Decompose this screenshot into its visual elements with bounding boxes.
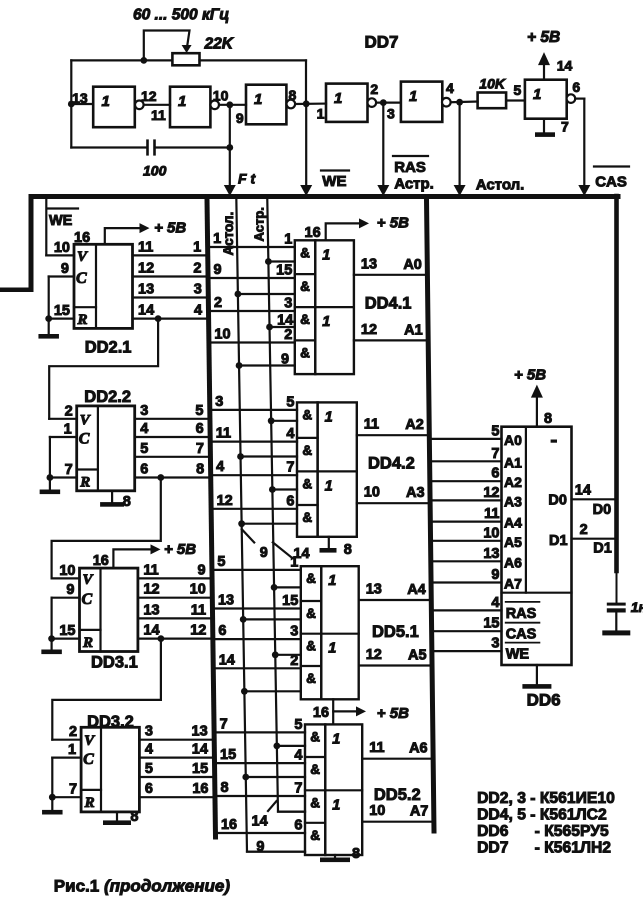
svg-text:2: 2 xyxy=(290,653,298,669)
DD4.1 pin 16 supply wire xyxy=(326,223,361,240)
svg-text:4: 4 xyxy=(446,80,454,96)
svg-text:A5: A5 xyxy=(408,648,427,664)
capacitor 1n wire to ground xyxy=(615,613,617,631)
DD5.1 select input wire from Astr line xyxy=(275,654,301,656)
svg-text:8: 8 xyxy=(344,542,352,558)
DD4.2 net 11 input wire pin 4 xyxy=(213,441,297,443)
DD5.2 select input wire from Astol line xyxy=(247,851,305,853)
svg-text:3: 3 xyxy=(387,106,395,122)
svg-text:15: 15 xyxy=(282,593,298,609)
inverter DD7 element 5 box xyxy=(401,82,442,122)
counter DD3.2 ground bar xyxy=(42,810,63,815)
junction on select line xyxy=(273,743,280,750)
svg-text:4: 4 xyxy=(145,742,153,758)
counter DD2.2 box xyxy=(77,406,135,491)
DD6 address input A7 pin 9 wire xyxy=(433,581,501,583)
junction on select line xyxy=(269,486,276,493)
svg-text:2: 2 xyxy=(370,81,378,97)
carry wire DD2.1 net4 to DD2.2 V xyxy=(155,315,162,322)
svg-text:8: 8 xyxy=(220,780,228,796)
svg-text:Астр.: Астр. xyxy=(394,176,434,193)
svg-text:10: 10 xyxy=(364,485,380,501)
svg-text:1: 1 xyxy=(328,641,336,657)
counter DD3.1 output pin 14 wire to net 12 xyxy=(138,637,211,639)
DD4.2 output pin 10 wire to A3 xyxy=(357,502,428,504)
svg-text:&: & xyxy=(306,639,316,654)
junction on select line xyxy=(272,651,279,658)
label WE at DD2.1 with overline xyxy=(48,207,79,209)
svg-text:D1: D1 xyxy=(593,541,612,557)
svg-text:16: 16 xyxy=(221,817,237,833)
DD5 pin 16 supply wire between halves xyxy=(332,699,334,724)
svg-text:12: 12 xyxy=(217,493,233,509)
counter DD3.2 pin 8 ground bar xyxy=(103,820,131,825)
svg-text:V: V xyxy=(83,572,95,588)
DD5.2 select input wire from Astol line xyxy=(246,776,305,778)
svg-text:3: 3 xyxy=(194,282,202,298)
wire inverter3 out to node xyxy=(295,102,326,105)
inverter DD7 element 1 box xyxy=(93,87,135,128)
svg-text:A7: A7 xyxy=(410,804,429,820)
svg-text:RAS: RAS xyxy=(506,606,537,622)
gate group DD5.2 and-cell column xyxy=(305,724,325,855)
svg-text:&: & xyxy=(306,606,316,621)
select line Astol (vertical) xyxy=(236,199,305,852)
DD4.1 select input wire from Astr line xyxy=(268,260,294,262)
DD5.1 select input wire from Astol line xyxy=(244,690,300,692)
svg-text:3: 3 xyxy=(290,624,298,640)
svg-text:1: 1 xyxy=(332,731,340,747)
svg-text:8: 8 xyxy=(123,494,131,510)
svg-text:12: 12 xyxy=(143,582,159,598)
svg-text:3: 3 xyxy=(140,403,148,419)
svg-text:14: 14 xyxy=(277,313,293,329)
select line Astr (vertical) xyxy=(267,199,305,812)
svg-text:11: 11 xyxy=(369,740,384,756)
DD6 address input A5 pin 10 wire xyxy=(433,540,502,542)
counter DD2.2 ground stub xyxy=(49,478,51,490)
svg-text:2: 2 xyxy=(214,295,222,311)
svg-text:1: 1 xyxy=(325,478,333,494)
svg-text:9: 9 xyxy=(281,352,289,368)
counter DD3.2 box xyxy=(81,727,139,812)
svg-text:10: 10 xyxy=(59,563,75,579)
svg-text:A4: A4 xyxy=(407,582,426,598)
frame: left exit bar to page edge xyxy=(0,288,34,293)
arrow: Astol into frame xyxy=(454,185,466,196)
svg-text:1: 1 xyxy=(102,93,110,110)
junction on select line xyxy=(236,362,243,369)
carry wire DD3.1 net12 to DD3.2 V xyxy=(158,635,165,642)
wire: Astol signal down to frame xyxy=(459,102,461,191)
svg-text:10: 10 xyxy=(190,582,206,598)
svg-text:+ 5В: + 5В xyxy=(164,541,196,558)
DD4.1 net 1 input wire pin 1 xyxy=(210,246,295,248)
svg-text:13: 13 xyxy=(483,546,499,562)
svg-text:C: C xyxy=(83,751,94,768)
wire: 22K right terminal to feedback node xyxy=(200,59,307,61)
counter DD2.2 output pin 5 wire to net 7 xyxy=(135,456,208,458)
capacitor 1n bottom plate xyxy=(607,608,626,612)
DD6 address input A2 pin 6 wire xyxy=(432,480,501,482)
svg-text:5: 5 xyxy=(195,403,203,419)
svg-text:5: 5 xyxy=(140,441,148,457)
svg-text:11: 11 xyxy=(151,107,166,123)
DD5.2 net 7 input wire pin 5 xyxy=(216,731,305,733)
ground bar DD7 pin7 xyxy=(535,132,555,137)
svg-text:9: 9 xyxy=(260,545,268,561)
svg-text:9: 9 xyxy=(214,262,222,278)
DD4.1 net 9 input wire pin 15 xyxy=(210,277,294,279)
svg-text:15: 15 xyxy=(220,747,236,763)
svg-text:DD3.2: DD3.2 xyxy=(87,713,134,731)
counter DD2.1 box xyxy=(74,244,133,328)
svg-text:2: 2 xyxy=(284,327,292,343)
svg-text:&: & xyxy=(302,510,312,525)
inverter DD7 element 2 box xyxy=(170,87,210,128)
DD6 control WE pin 3 wire xyxy=(434,650,501,652)
wire: bottom feedback left segment xyxy=(71,146,146,148)
DD4.2 pin 8 ground stub xyxy=(328,537,330,548)
DD5.2 net 15 input wire pin 4 xyxy=(217,762,305,764)
svg-text:3: 3 xyxy=(491,636,499,652)
capacitor C 100 right plate xyxy=(153,139,156,155)
svg-text:11: 11 xyxy=(191,602,206,618)
svg-text:CAS: CAS xyxy=(595,174,627,191)
DD6 small mark inside xyxy=(551,440,557,443)
counter DD3.2 output pin 5 wire to net 15 xyxy=(139,776,212,778)
svg-text:16: 16 xyxy=(313,705,329,721)
svg-text:Астол.: Астол. xyxy=(476,177,525,194)
svg-text:R: R xyxy=(79,475,90,491)
svg-text:C: C xyxy=(82,591,93,608)
DD5.1 select input wire from Astr line xyxy=(274,586,301,588)
svg-text:WE: WE xyxy=(49,213,73,229)
frame: far right thin continuation to capacitor xyxy=(616,571,618,603)
counter DD3.2 ground node xyxy=(49,794,56,801)
counter DD2.2 output pin 4 wire to net 6 xyxy=(135,436,208,438)
svg-text:8: 8 xyxy=(196,462,204,478)
svg-text:A5: A5 xyxy=(504,534,522,550)
counter DD3.2 C-to-R tie wire xyxy=(51,758,53,798)
svg-text:&: & xyxy=(300,279,310,294)
svg-text:&: & xyxy=(310,828,320,843)
arrow: CAS into frame xyxy=(578,185,590,196)
svg-text:V: V xyxy=(77,249,89,265)
DD6 address column divider xyxy=(525,427,527,593)
svg-text:9: 9 xyxy=(61,261,69,277)
svg-text:4: 4 xyxy=(194,303,202,319)
counter DD3.2 pin 7 (R) wire xyxy=(52,796,81,798)
counter DD3.2 output pin 6 wire to net 16 xyxy=(139,796,212,798)
svg-text:9: 9 xyxy=(66,582,74,598)
svg-text:&: & xyxy=(310,729,320,744)
wire inverter5 out to 10K resistor xyxy=(451,100,478,103)
inverter DD7 element 6 box xyxy=(525,80,567,119)
svg-text:DD3.1: DD3.1 xyxy=(91,654,138,672)
svg-text:&: & xyxy=(310,795,320,810)
wire inverter1 out to inverter2 in xyxy=(144,104,170,106)
svg-text:RAS: RAS xyxy=(394,159,426,176)
svg-text:1: 1 xyxy=(322,314,330,330)
svg-text:6: 6 xyxy=(145,781,153,797)
svg-text:C: C xyxy=(79,431,90,448)
svg-text:14: 14 xyxy=(575,483,591,499)
svg-text:11: 11 xyxy=(138,239,153,255)
svg-text:12: 12 xyxy=(361,322,377,338)
wire inverter4 out to inverter5 in xyxy=(376,101,401,103)
arrow: +5V up at DD6 xyxy=(531,385,543,398)
svg-text:C: C xyxy=(76,270,87,287)
svg-text:10: 10 xyxy=(369,803,385,819)
DD5.1 net 13 input wire pin 15 xyxy=(215,607,301,609)
counter DD2.2 pin 8 ground stub xyxy=(111,491,113,502)
wire inverter6 out to CAS drop xyxy=(575,97,584,99)
inverter DD7 element 3 box xyxy=(246,85,286,125)
counter DD3.1 pin 9 (C) wire xyxy=(52,597,80,599)
svg-text:A1: A1 xyxy=(404,322,423,338)
DD5.1 net 14 input wire pin 2 xyxy=(216,667,301,669)
counter DD2.2 C-to-R tie wire xyxy=(49,437,51,478)
svg-text:3: 3 xyxy=(215,394,223,410)
svg-text:9: 9 xyxy=(491,567,499,583)
junction on select line xyxy=(271,584,278,591)
svg-text:2: 2 xyxy=(193,261,201,277)
node: pin4 xyxy=(456,99,463,106)
DD6 control RAS pin 4 wire xyxy=(434,609,502,611)
inversion bubble pin 8 xyxy=(287,100,296,109)
junction on select line xyxy=(237,453,244,460)
svg-text:DD5.1: DD5.1 xyxy=(372,623,419,641)
svg-text:14: 14 xyxy=(219,652,235,668)
svg-text:8: 8 xyxy=(289,87,297,103)
svg-text:&: & xyxy=(302,443,312,458)
potentiometer arrow head xyxy=(182,45,192,53)
svg-text:1н: 1н xyxy=(631,599,643,615)
svg-text:+ 5В: + 5В xyxy=(527,29,560,46)
DD6 RAS label with overline xyxy=(506,601,540,603)
gate group DD4.2 and-cell column xyxy=(297,402,318,536)
arrow: +5V right at DD3.1 xyxy=(151,544,161,554)
svg-text:DD4.1: DD4.1 xyxy=(365,295,412,313)
svg-text:1: 1 xyxy=(68,742,76,758)
DD5.2 output pin 10 wire to A7 xyxy=(362,821,431,823)
svg-text:8: 8 xyxy=(130,809,138,825)
svg-text:Рис.1 (продолжение): Рис.1 (продолжение) xyxy=(54,877,231,896)
counter DD2.1 output pin 11 wire to net 1 xyxy=(133,254,206,256)
svg-text:7: 7 xyxy=(220,716,228,732)
DD5.2 net 16 input wire pin 6 xyxy=(218,832,305,834)
DD4.1 output pin 12 wire to A1 xyxy=(354,339,426,341)
svg-text:2: 2 xyxy=(580,522,588,538)
svg-text:&: & xyxy=(310,762,320,777)
DD6 address input A6 pin 13 wire xyxy=(433,560,501,562)
svg-text:16: 16 xyxy=(305,225,321,241)
counter DD2.2 output pin 3 wire to net 5 xyxy=(135,418,208,420)
counter DD2.2 pin 1 (C) wire xyxy=(50,436,77,438)
counter DD2.2 pin 2 (V) wire xyxy=(49,418,76,420)
arrow: Ft into frame xyxy=(224,185,236,196)
svg-text:13: 13 xyxy=(361,256,377,272)
svg-text:10K: 10K xyxy=(479,76,506,92)
counter DD2.1 WE input wire from frame xyxy=(45,199,47,255)
DD5.1 select input wire from Astol line xyxy=(243,618,301,620)
wire: 10K to inverter6 xyxy=(506,99,525,101)
svg-text:6: 6 xyxy=(294,818,302,834)
svg-text:9: 9 xyxy=(197,562,205,578)
svg-text:DD4.2: DD4.2 xyxy=(368,455,415,473)
DD6 D0 output wire pin 14 xyxy=(572,498,615,500)
svg-text:R: R xyxy=(82,635,93,651)
wire: Ft signal down to frame xyxy=(229,148,231,192)
counter DD3.2 pin 1 (C) wire xyxy=(52,756,81,758)
svg-text:DD5.2: DD5.2 xyxy=(374,786,421,804)
counter DD3.2 ground stub xyxy=(51,797,53,810)
DD5.1 net 5 input wire pin 1 xyxy=(214,569,301,571)
counter DD3.2 R section divider xyxy=(81,789,101,791)
svg-text:10: 10 xyxy=(54,240,70,256)
svg-text:DD2.2: DD2.2 xyxy=(84,388,131,406)
capacitor ground bar xyxy=(602,630,630,635)
frame: right cable thick line xyxy=(427,199,435,831)
DD4.2 net 12 input wire pin 6 xyxy=(213,508,297,510)
svg-text:+ 5В: + 5В xyxy=(377,215,409,232)
svg-text:F t: F t xyxy=(238,171,256,187)
svg-text:6: 6 xyxy=(218,623,226,639)
svg-text:7: 7 xyxy=(65,462,73,478)
svg-text:16: 16 xyxy=(192,781,208,797)
counter DD3.1 pin 15 (R) wire xyxy=(52,637,80,639)
DD5.2 select input wire from Astr line xyxy=(277,745,305,747)
svg-text:14: 14 xyxy=(192,742,208,758)
DD5.1 net 6 input wire pin 3 xyxy=(215,638,301,640)
gate group DD5.1 OR column xyxy=(321,566,358,699)
junction on select line xyxy=(265,258,272,265)
arrow: WE into frame xyxy=(300,185,312,196)
svg-text:1: 1 xyxy=(64,422,72,438)
svg-text:5: 5 xyxy=(514,82,522,98)
svg-text:12: 12 xyxy=(141,88,157,104)
svg-text:13: 13 xyxy=(366,582,382,598)
svg-text:15: 15 xyxy=(483,616,499,632)
svg-text:A6: A6 xyxy=(409,741,428,757)
wire: oscillator tap down to Ft node xyxy=(229,105,231,148)
svg-text:6: 6 xyxy=(572,79,580,95)
junction on select line xyxy=(242,774,249,781)
gate group DD5.1 and-cell column xyxy=(301,566,322,699)
counter DD3.1 C-to-R tie wire xyxy=(50,598,52,639)
label CAS with overline xyxy=(594,165,629,167)
svg-text:&: & xyxy=(300,245,310,260)
inversion bubble pin 6 xyxy=(567,94,576,103)
wire: CAS signal down to frame xyxy=(583,99,585,191)
junction on select line xyxy=(241,688,248,695)
svg-text:DD7: DD7 xyxy=(365,33,399,52)
svg-text:7: 7 xyxy=(286,460,294,476)
counter DD2.1 R section divider xyxy=(74,306,96,308)
counter DD3.1 output pin 13 wire to net 11 xyxy=(138,617,210,619)
svg-text:11: 11 xyxy=(216,426,231,442)
svg-text:12: 12 xyxy=(190,623,206,639)
counter DD2.2 pin 7 (R) wire xyxy=(50,476,77,478)
DD6 address input A1 pin 7 wire xyxy=(432,460,502,462)
counter DD2.1 pin 10 (V) wire xyxy=(46,254,74,256)
gate group DD4.1 and-cell column xyxy=(295,240,316,374)
counter DD3.2 pin 2 (V) wire xyxy=(52,739,81,741)
svg-text:1: 1 xyxy=(178,93,186,110)
frame: left thick border xyxy=(29,194,34,291)
svg-text:1: 1 xyxy=(213,231,221,247)
DD6 control section divider xyxy=(502,592,572,594)
svg-text:9: 9 xyxy=(236,110,244,126)
node: pin8 output xyxy=(303,100,310,107)
svg-text:12: 12 xyxy=(366,647,382,663)
counter DD2.1 V/C strip divider xyxy=(95,244,97,328)
DD4.2 net 4 input wire pin 7 xyxy=(213,474,297,476)
svg-text:12: 12 xyxy=(483,485,499,501)
counter DD3.1 ground stub xyxy=(50,639,52,650)
svg-text:1: 1 xyxy=(284,232,292,248)
svg-text:Астол.: Астол. xyxy=(221,212,236,256)
svg-text:8: 8 xyxy=(352,846,360,862)
svg-text:14: 14 xyxy=(138,303,154,319)
node: Ft tap xyxy=(226,144,233,151)
svg-text:14: 14 xyxy=(252,814,268,830)
counter DD2.2 output pin 6 wire to net 8 xyxy=(135,476,209,478)
svg-text:9: 9 xyxy=(256,839,264,855)
counter DD2.1 ground bar xyxy=(38,334,59,339)
DD6 address input A0 pin 5 wire xyxy=(432,438,502,440)
svg-text:V: V xyxy=(80,412,92,428)
svg-text:3: 3 xyxy=(284,296,292,312)
svg-text:A0: A0 xyxy=(504,432,522,448)
svg-text:DD4, 5 - К561ЛС2: DD4, 5 - К561ЛС2 xyxy=(477,807,607,824)
counter DD2.2 ground node xyxy=(47,474,54,481)
DD4.2 select input wire from Astol line xyxy=(241,455,297,457)
svg-text:13: 13 xyxy=(218,593,234,609)
svg-text:10: 10 xyxy=(214,327,230,343)
svg-text:A7: A7 xyxy=(504,576,522,592)
arrow: +5V up xyxy=(538,52,550,65)
svg-text:16: 16 xyxy=(74,230,90,246)
node: inverter 1 input on left rail xyxy=(68,101,75,108)
counter DD2.1 C-to-R tie wire xyxy=(48,277,50,319)
DD6 pin 8 supply wire xyxy=(536,396,538,427)
DD4.2 net 3 input wire pin 5 xyxy=(212,409,297,411)
DD4.1 net 2 input wire pin 3 xyxy=(211,310,295,312)
counter DD2.1 output pin 14 wire to net 4 xyxy=(133,318,207,320)
svg-text:A3: A3 xyxy=(406,485,425,501)
counter DD2.2 pin 8 ground bar xyxy=(100,502,124,507)
svg-text:11: 11 xyxy=(364,417,379,433)
svg-text:7: 7 xyxy=(561,119,569,135)
DD5.2 pin 8 ground stub xyxy=(334,855,336,858)
arrow: +5V right at DD5 xyxy=(356,706,366,716)
svg-text:DD2, 3 - К561ИЕ10: DD2, 3 - К561ИЕ10 xyxy=(477,790,615,807)
svg-text:+ 5В: + 5В xyxy=(377,705,409,722)
counter DD2.1 output pin 12 wire to net 2 xyxy=(133,275,206,277)
junction on select line xyxy=(234,291,241,298)
wire: capacitor to Ft node xyxy=(156,146,230,148)
counter DD3.1 R section divider xyxy=(80,629,101,631)
DD4.2 select input wire from Astr line xyxy=(271,420,297,422)
svg-text:11: 11 xyxy=(484,506,499,522)
capacitor 1n top plate xyxy=(607,603,626,606)
arrow: +5V right at DD2.1 xyxy=(140,223,150,233)
wire: RAS signal down to frame xyxy=(382,103,384,191)
svg-text:4: 4 xyxy=(294,748,302,764)
DD4.1 select input wire from Astol line xyxy=(239,364,295,366)
